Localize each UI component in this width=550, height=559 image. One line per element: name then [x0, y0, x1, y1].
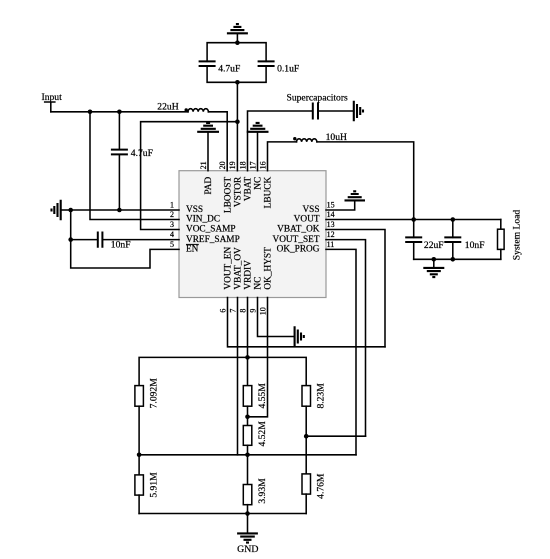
- svg-text:7.092M: 7.092M: [149, 378, 160, 409]
- svg-text:22uH: 22uH: [157, 102, 178, 113]
- wire 8.23M bottom to tap: [305, 406, 307, 474]
- wire 4.55M bottom stub: [247, 406, 249, 425]
- wire output bottom rail: [414, 258, 501, 260]
- wire divider mid rail: [139, 454, 356, 456]
- capacitor 10nF output: [444, 220, 484, 260]
- svg-text:VIN_DC: VIN_DC: [186, 215, 220, 225]
- svg-text:LBUCK: LBUCK: [264, 177, 274, 209]
- svg-text:21: 21: [199, 161, 208, 169]
- node junction dot VOUT/10nF: [451, 217, 456, 222]
- capacitor 10nF VREF_SAMP: [71, 232, 179, 251]
- svg-text:NC: NC: [254, 177, 264, 190]
- svg-text:VRDIV: VRDIV: [244, 260, 254, 290]
- wire pin 16 LBUCK to inductor: [268, 142, 297, 171]
- node junction dot mid rail left: [137, 453, 142, 458]
- inductor L2 10uH: [293, 132, 347, 143]
- svg-text:8: 8: [238, 309, 247, 313]
- pin numbers top: [199, 161, 267, 169]
- ground output: [423, 259, 444, 277]
- resistor System Load: [498, 210, 523, 261]
- wire pin 15 VSS right: [326, 200, 355, 210]
- svg-text:11: 11: [327, 240, 335, 249]
- svg-text:4.76M: 4.76M: [316, 473, 327, 499]
- svg-text:OK_HYST: OK_HYST: [264, 247, 274, 290]
- node Input terminal: [42, 92, 63, 112]
- svg-text:13: 13: [327, 220, 335, 229]
- wire 10uH to VOUT rail: [317, 142, 414, 220]
- IC pin names top: [204, 176, 274, 213]
- svg-text:LBOOST: LBOOST: [223, 176, 233, 212]
- wire pin 12 VOUT_SET: [326, 240, 366, 437]
- wire pin 11 OK_PROG: [326, 249, 356, 454]
- svg-text:22uF: 22uF: [424, 240, 444, 251]
- wire inductor to pin 20 LBOOST: [208, 112, 227, 171]
- node junction dot VOUT_SET tap: [304, 434, 309, 439]
- svg-text:2: 2: [170, 210, 174, 219]
- svg-text:NC: NC: [254, 277, 264, 290]
- svg-text:PAD: PAD: [204, 177, 214, 195]
- svg-text:OK_PROG: OK_PROG: [277, 245, 320, 255]
- node junction dot GND: [245, 511, 250, 516]
- svg-text:VSS: VSS: [186, 205, 203, 215]
- svg-text:7: 7: [228, 309, 237, 313]
- svg-text:20: 20: [218, 161, 227, 169]
- svg-text:VSS: VSS: [302, 205, 319, 215]
- wire VOUT rail: [326, 219, 501, 221]
- resistor 3.93M: [243, 455, 268, 514]
- svg-text:14: 14: [327, 210, 335, 219]
- wire pin 9 NC to ground: [258, 298, 295, 337]
- svg-text:5: 5: [170, 240, 174, 249]
- svg-text:10: 10: [258, 307, 267, 315]
- svg-text:4.7uF: 4.7uF: [131, 148, 153, 159]
- IC pin names right: [273, 205, 320, 254]
- svg-text:0.1uF: 0.1uF: [277, 64, 299, 75]
- wire pin 8 VRDIV: [247, 298, 249, 358]
- svg-text:10nF: 10nF: [465, 240, 485, 251]
- ground left (sideways): [52, 200, 71, 221]
- ground pin 9 (sideways right): [295, 326, 304, 347]
- capacitor supercapacitor: [287, 92, 354, 119]
- inductor L1 22uH: [157, 102, 208, 113]
- wire 7.092M bottom to mid rail: [138, 406, 140, 455]
- svg-text:12: 12: [327, 230, 335, 239]
- svg-text:4.52M: 4.52M: [257, 421, 268, 447]
- node junction dot VSS/C-4.7uF bottom: [117, 208, 122, 213]
- wire VOC_SAMP rail to pin 3: [141, 122, 238, 230]
- svg-text:GND: GND: [237, 544, 258, 555]
- wire 4.52M bottom stub: [247, 445, 249, 455]
- svg-text:Input: Input: [42, 92, 63, 103]
- node junction dot VSS/ground: [68, 208, 73, 213]
- wire 4.55M top stub: [247, 357, 249, 385]
- pin numbers left: [170, 201, 174, 249]
- resistor 8.23M: [302, 383, 327, 409]
- node junction dot input/VIN_DC: [88, 110, 93, 115]
- capacitor 22uF: [405, 220, 443, 260]
- svg-text:5.91M: 5.91M: [149, 472, 160, 498]
- svg-text:VOUT_EN: VOUT_EN: [224, 246, 234, 289]
- svg-text:System Load: System Load: [512, 210, 523, 261]
- node junction dot ground stem: [432, 257, 437, 262]
- svg-text:10nF: 10nF: [111, 240, 131, 251]
- svg-text:VBAT_OK: VBAT_OK: [277, 225, 320, 235]
- svg-text:4.55M: 4.55M: [257, 383, 268, 409]
- node junction dot VRDIV rail: [245, 355, 250, 360]
- wire pin 6 VOUT_EN to VBAT_OK: [228, 298, 386, 347]
- wire VOUT_SET tap to pin 12 vertical: [306, 435, 365, 437]
- node junction dot bottom rail: [235, 80, 240, 85]
- svg-text:VREF_SAMP: VREF_SAMP: [186, 235, 240, 245]
- ground supercap (sideways right): [354, 101, 363, 122]
- svg-text:6: 6: [218, 309, 227, 313]
- svg-text:16: 16: [258, 161, 267, 169]
- resistor 4.76M: [302, 473, 327, 513]
- EN overline: [186, 243, 199, 245]
- ground above pin 15: [345, 191, 366, 200]
- svg-text:1: 1: [170, 201, 174, 210]
- svg-text:3: 3: [170, 220, 174, 229]
- svg-text:8.23M: 8.23M: [316, 383, 327, 409]
- svg-text:VOC_SAMP: VOC_SAMP: [186, 225, 236, 235]
- IC pin names left: [186, 205, 240, 254]
- node junction dot VOUT/22uF: [411, 217, 416, 222]
- node junction dot input/C-4.7uF: [117, 110, 122, 115]
- IC U1 body: [179, 171, 326, 298]
- wire input rail: [51, 111, 188, 113]
- wire top cap loop: [207, 43, 266, 83]
- node junction dot top rail: [235, 40, 240, 45]
- svg-text:18: 18: [238, 161, 247, 169]
- wire VSS down branch: [70, 210, 72, 240]
- svg-text:VSTOR: VSTOR: [234, 176, 244, 207]
- ground above pin 17: [247, 123, 269, 171]
- svg-text:4: 4: [170, 230, 174, 239]
- wire pin 7 VBAT_OV: [237, 298, 239, 455]
- svg-text:4.7uF: 4.7uF: [218, 64, 240, 75]
- svg-text:VBAT_OV: VBAT_OV: [234, 247, 244, 290]
- wire VSTOR vertical to pin 19: [236, 82, 238, 170]
- node junction dot VSTOR/VOC rail: [235, 119, 240, 124]
- svg-text:VOUT: VOUT: [294, 215, 320, 225]
- svg-text:15: 15: [327, 201, 335, 210]
- capacitor 0.1uF (VSTOR): [258, 61, 300, 74]
- svg-text:VOUT_SET: VOUT_SET: [273, 235, 320, 245]
- svg-text:9: 9: [248, 309, 257, 313]
- capacitor 4.7uF input: [111, 112, 153, 210]
- wire pin 18 VBAT to supercapacitors: [248, 111, 313, 171]
- svg-text:19: 19: [228, 161, 237, 169]
- resistor 7.092M: [135, 378, 160, 409]
- wire pin 10 OK_HYST: [248, 298, 268, 417]
- ground top (above cap pair): [227, 24, 248, 43]
- pin numbers right: [327, 201, 335, 249]
- ground GND: [237, 514, 258, 555]
- wire pin 13 VBAT_OK: [326, 230, 385, 347]
- node junction dot mid rail center: [245, 453, 250, 458]
- IC pin names bottom: [224, 246, 274, 289]
- svg-text:3.93M: 3.93M: [257, 478, 268, 504]
- wire GND rail: [139, 513, 306, 515]
- pin numbers bottom: [218, 307, 267, 315]
- node junction dot 10nF bottom: [451, 257, 456, 262]
- capacitor 4.7uF (VSTOR): [199, 61, 241, 74]
- ground above pin 21 PAD: [197, 123, 219, 171]
- wire pin 1 VSS row: [71, 209, 179, 211]
- node junction dot 10nF branch: [68, 237, 73, 242]
- svg-text:VBAT: VBAT: [244, 176, 254, 201]
- svg-text:EN: EN: [186, 245, 199, 255]
- wire divider top rail VRDIV: [139, 357, 306, 385]
- svg-text:Supercapacitors: Supercapacitors: [287, 92, 349, 103]
- resistor 5.91M: [135, 455, 160, 514]
- resistor 4.55M: [243, 383, 268, 409]
- wire pin 2 VIN_DC branch: [90, 112, 179, 220]
- svg-text:17: 17: [248, 161, 257, 169]
- resistor 4.52M: [243, 421, 268, 447]
- node junction dot OK_HYST tap: [245, 415, 250, 420]
- wire EN loop: [71, 240, 179, 268]
